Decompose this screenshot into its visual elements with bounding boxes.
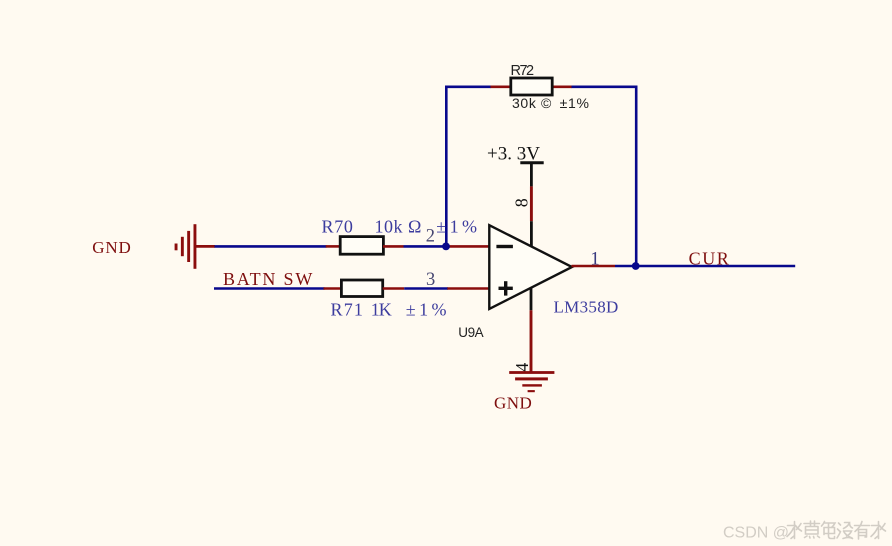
pin 3 of U9A (non-inverting input) xyxy=(426,270,490,290)
watermark CSDN xyxy=(723,521,886,542)
ground symbol bottom (earth ground) xyxy=(509,371,554,392)
pin stub left of R71 xyxy=(324,287,343,290)
svg-text:R72: R72 xyxy=(511,63,535,79)
svg-text:R70: R70 xyxy=(322,217,354,237)
net label GND bottom xyxy=(494,393,532,412)
wire feedback vertical left (to inverting input) xyxy=(445,86,448,247)
svg-text:1: 1 xyxy=(590,248,600,269)
net label CUR xyxy=(689,248,731,268)
net label BATN SW xyxy=(223,269,314,289)
svg-text:2: 2 xyxy=(426,226,435,246)
pin 8 of U9A (V+) xyxy=(512,186,532,246)
junction node at inverting input xyxy=(442,243,450,251)
svg-text:±1%: ±1% xyxy=(436,217,480,237)
svg-text:CSDN @: CSDN @ xyxy=(723,525,789,542)
wire BATN SW to R71 xyxy=(214,287,325,290)
junction node at output xyxy=(632,262,640,270)
wire from left ground to R70 xyxy=(215,245,327,248)
水 xyxy=(787,522,802,539)
水 xyxy=(871,522,886,539)
wire top feedback horizontal right segment xyxy=(572,86,638,89)
pin stub left of R70 xyxy=(326,245,341,248)
svg-text:GND: GND xyxy=(494,393,532,412)
svg-text:30k © ±1%: 30k © ±1% xyxy=(512,95,590,111)
svg-text:±1%: ±1% xyxy=(406,299,450,319)
wire R71 to pin 3 xyxy=(404,287,448,290)
wire top feedback horizontal left segment xyxy=(445,86,491,89)
pin 1 of U9A (output) xyxy=(572,248,616,269)
包 xyxy=(822,522,836,539)
svg-text:R71: R71 xyxy=(331,299,365,319)
svg-text:U9A: U9A xyxy=(458,325,483,340)
op-amp U9A triangle xyxy=(458,225,572,340)
svg-text:GND: GND xyxy=(92,238,131,257)
svg-text:3: 3 xyxy=(426,270,435,290)
wire R70 to junction xyxy=(404,245,447,248)
wire pin stub right of R72 xyxy=(552,86,572,89)
ground symbol left (rotated earth ground) xyxy=(175,224,215,269)
pin stub right of R71 xyxy=(383,287,405,290)
tolerance label R70 ±1% xyxy=(436,217,480,237)
svg-text:LM358D: LM358D xyxy=(554,298,619,317)
part label LM358D xyxy=(554,298,619,317)
resistor R71 xyxy=(331,280,450,319)
net label GND left xyxy=(92,238,131,257)
wire output to CUR xyxy=(615,265,795,268)
power symbol +3.3V xyxy=(487,143,544,186)
wire feedback vertical right (from output) xyxy=(635,86,638,267)
minus sign inside op-amp xyxy=(496,245,513,248)
pin stub right of R70 xyxy=(383,245,404,248)
resistor R72 xyxy=(511,63,590,111)
没 xyxy=(837,523,853,539)
svg-text:8: 8 xyxy=(512,198,532,207)
svg-text:BATN SW: BATN SW xyxy=(223,269,314,289)
pin 4 of U9A (V-) xyxy=(512,288,532,372)
plus sign inside op-amp xyxy=(499,281,513,295)
resistor R70 xyxy=(322,217,422,255)
wire pin stub left of R72 xyxy=(491,86,512,89)
pin 2 of U9A (inverting input) xyxy=(426,226,490,246)
煎 xyxy=(804,521,820,538)
svg-text:1K: 1K xyxy=(371,299,392,319)
svg-text:CUR: CUR xyxy=(689,248,731,268)
有 xyxy=(855,522,870,540)
svg-text:4: 4 xyxy=(512,363,532,372)
svg-text:10k Ω: 10k Ω xyxy=(375,217,422,237)
svg-text:+3. 3V: +3. 3V xyxy=(487,143,540,164)
